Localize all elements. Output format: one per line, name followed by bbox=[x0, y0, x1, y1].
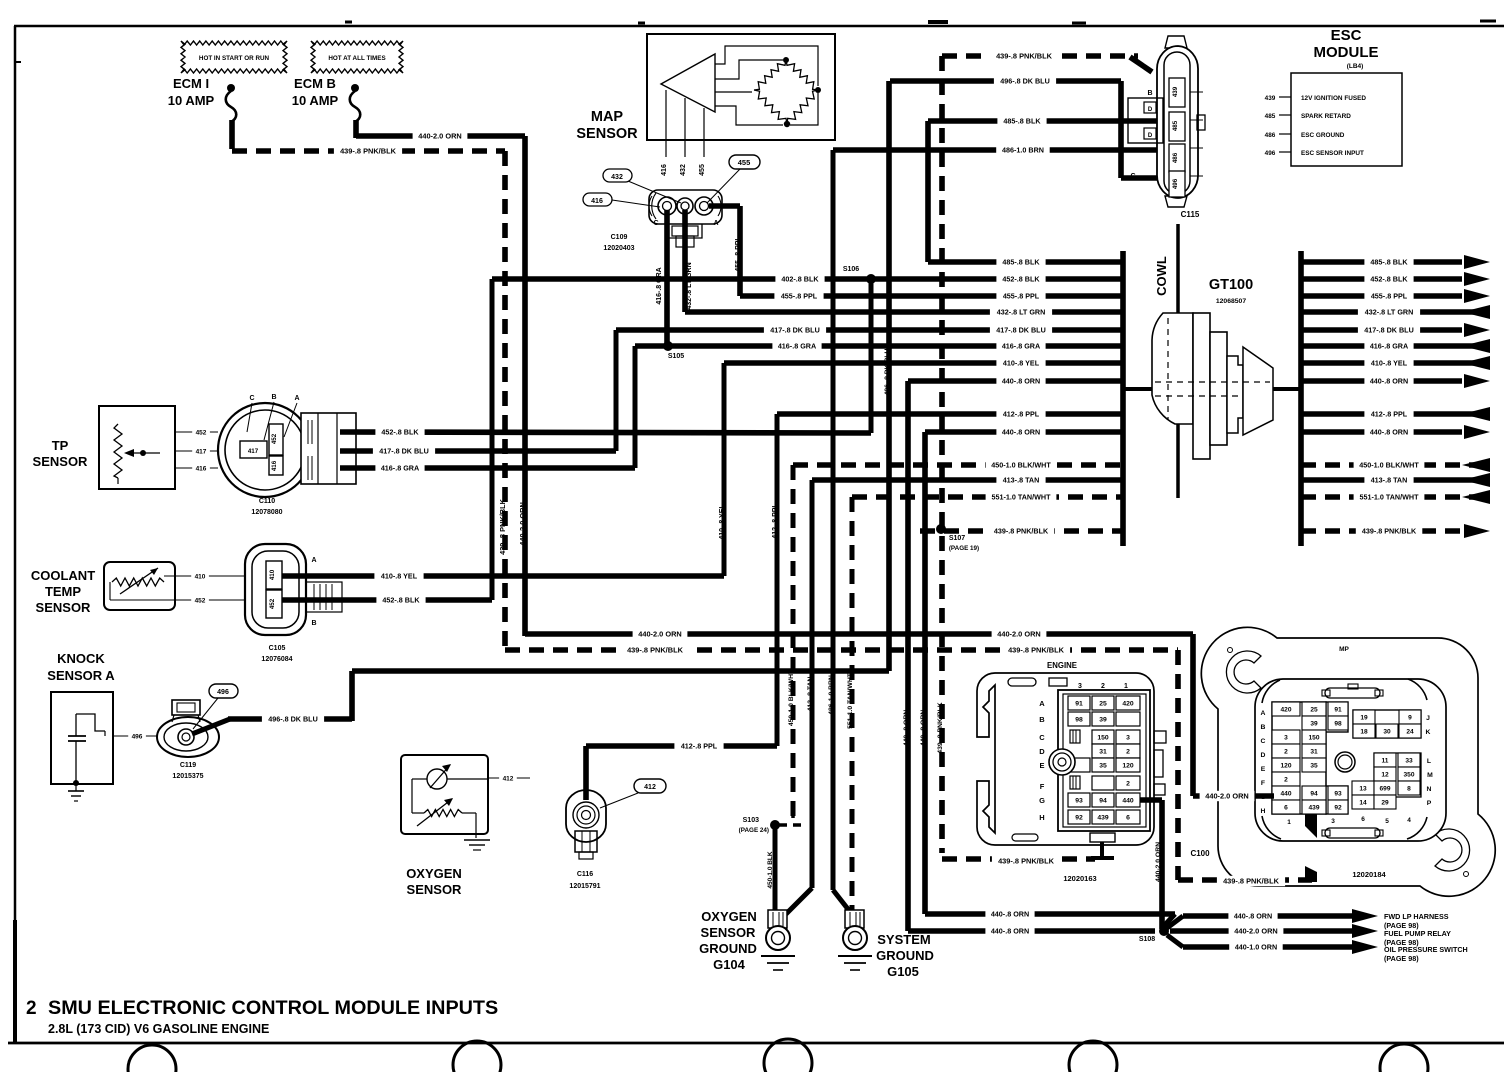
C109 id text bbox=[603, 234, 634, 252]
wire 432-.8 LT GRN from MAP bbox=[685, 210, 693, 312]
C110 pin cavities bbox=[240, 424, 283, 475]
ENGINE drain tab bbox=[1090, 833, 1115, 860]
svg-text:HOT AT ALL TIMES: HOT AT ALL TIMES bbox=[328, 55, 385, 62]
svg-text:455-.8 PPL: 455-.8 PPL bbox=[781, 292, 818, 301]
svg-text:350: 350 bbox=[1403, 772, 1414, 779]
svg-text:K: K bbox=[1426, 729, 1431, 736]
svg-text:93: 93 bbox=[1075, 798, 1083, 805]
svg-text:C: C bbox=[653, 220, 658, 227]
svg-text:OIL PRESSURE SWITCH: OIL PRESSURE SWITCH bbox=[1384, 945, 1468, 954]
svg-text:417: 417 bbox=[248, 448, 259, 455]
svg-text:450-1.0 BLK: 450-1.0 BLK bbox=[767, 851, 774, 889]
title text bbox=[26, 997, 498, 1036]
ENGINE right tabs bbox=[1154, 731, 1166, 795]
wire 413-.8 TAN right of GT100 with arrow bbox=[1301, 473, 1490, 487]
wire 452-.8 BLK row to cowl bus bbox=[492, 274, 1123, 284]
svg-text:485: 485 bbox=[1172, 120, 1179, 131]
wire 439-.8 PNK/BLK right of GT100 with arrow bbox=[1301, 524, 1490, 538]
svg-text:TEMP: TEMP bbox=[45, 584, 81, 599]
svg-text:A: A bbox=[311, 557, 316, 564]
svg-text:92: 92 bbox=[1334, 805, 1342, 812]
svg-text:485-.8 BLK: 485-.8 BLK bbox=[1003, 117, 1041, 126]
GT100 bulkhead connector bbox=[1152, 313, 1273, 459]
wire 440-.8 ORN to FWD LP HARNESS bbox=[1167, 909, 1378, 928]
svg-text:439-.8 PNK/BLK: 439-.8 PNK/BLK bbox=[937, 702, 944, 753]
svg-text:439-.8 PNK/BLK: 439-.8 PNK/BLK bbox=[1223, 877, 1280, 886]
bus bar left of GT100 bbox=[1120, 251, 1126, 546]
svg-text:1: 1 bbox=[1287, 819, 1291, 826]
svg-text:439-.8 PNK/BLK: 439-.8 PNK/BLK bbox=[996, 52, 1053, 61]
riser 439 PNK/BLK dashed x942 bbox=[937, 56, 944, 853]
MP row letters A-H bbox=[1260, 710, 1265, 815]
riser 416 GRA x635 bbox=[633, 346, 638, 468]
svg-text:439-.8 PNK/BLK: 439-.8 PNK/BLK bbox=[1008, 646, 1065, 655]
svg-text:432: 432 bbox=[611, 174, 623, 181]
wire 417-.8 DK BLU right of GT100 with arrow bbox=[1301, 323, 1490, 337]
svg-text:12: 12 bbox=[1381, 772, 1389, 779]
svg-text:B: B bbox=[1147, 90, 1152, 97]
svg-text:H: H bbox=[1261, 808, 1266, 815]
wire 416-.8 GRA from MAP bbox=[656, 210, 667, 346]
svg-text:12015375: 12015375 bbox=[172, 773, 203, 780]
svg-text:35: 35 bbox=[1310, 763, 1318, 770]
svg-text:452-.8 BLK: 452-.8 BLK bbox=[1370, 275, 1408, 284]
MP right top grid J K bbox=[1353, 710, 1431, 738]
wire 496-.8 DK BLU to C115 bbox=[890, 76, 1166, 178]
svg-text:D: D bbox=[1148, 107, 1153, 113]
wire 551-1.0 TAN/WHT row to cowl bus bbox=[852, 492, 1123, 502]
svg-text:440-2.0 ORN: 440-2.0 ORN bbox=[1234, 927, 1278, 936]
ESC module box bbox=[1291, 73, 1402, 166]
svg-text:413-.8 TAN: 413-.8 TAN bbox=[1371, 476, 1408, 485]
wire 486-1.0 BRN to C115 bbox=[833, 145, 1166, 155]
svg-text:F: F bbox=[1040, 782, 1045, 791]
svg-text:439-.8 PNK/BLK: 439-.8 PNK/BLK bbox=[1362, 527, 1417, 536]
ring terminal G104 bbox=[766, 910, 790, 950]
wire 551-1.0 TAN/WHT right of GT100 with arrow bbox=[1301, 490, 1490, 504]
svg-text:416: 416 bbox=[661, 164, 668, 176]
svg-text:2: 2 bbox=[1126, 749, 1130, 756]
svg-text:2: 2 bbox=[1101, 683, 1105, 690]
TP potentiometer element bbox=[114, 424, 160, 484]
wire 452-.8 BLK from TP bbox=[340, 427, 871, 437]
wire 440-2.0 ORN left riser bbox=[518, 136, 527, 636]
svg-text:450-1.0 BLK/WHT: 450-1.0 BLK/WHT bbox=[788, 669, 795, 726]
wire 416-.8 GRA mid label bbox=[772, 341, 821, 351]
svg-text:GROUND: GROUND bbox=[699, 941, 757, 956]
MP inner arcs bbox=[1262, 679, 1427, 839]
MP right bottom grid L M N P bbox=[1352, 753, 1433, 809]
svg-text:432-.8 LT GRN: 432-.8 LT GRN bbox=[686, 262, 693, 309]
MP corner clamp bottom-right bbox=[1435, 829, 1470, 877]
svg-text:C: C bbox=[249, 395, 254, 402]
wire 485-.8 BLK row to cowl bus bbox=[928, 257, 1123, 267]
svg-text:SMU ELECTRONIC CONTROL MODULE: SMU ELECTRONIC CONTROL MODULE INPUTS bbox=[48, 997, 498, 1019]
svg-text:H: H bbox=[1039, 813, 1044, 822]
svg-text:98: 98 bbox=[1334, 721, 1342, 728]
svg-text:417: 417 bbox=[196, 448, 207, 455]
C115 pin 485 bbox=[1169, 112, 1185, 141]
svg-text:452-.8 BLK: 452-.8 BLK bbox=[1002, 275, 1040, 284]
svg-text:OXYGEN: OXYGEN bbox=[406, 866, 462, 881]
riser 412 PPL x777 bbox=[772, 414, 779, 746]
svg-text:S106: S106 bbox=[843, 266, 859, 273]
FWD LP HARNESS caption bbox=[1384, 912, 1449, 930]
MAP sensor box bbox=[647, 34, 835, 140]
svg-text:35: 35 bbox=[1099, 763, 1107, 770]
wire 412-.8 PPL from C116 bbox=[586, 741, 777, 800]
wire 455-.8 PPL mid label bbox=[774, 291, 823, 301]
wire 439 dashed below engine connector bbox=[942, 856, 1095, 866]
svg-text:416-.8 GRA: 416-.8 GRA bbox=[1370, 342, 1408, 351]
wire 440-.8 ORN right of GT100 with arrow bbox=[1301, 425, 1490, 439]
svg-text:S105: S105 bbox=[668, 353, 684, 360]
svg-text:C: C bbox=[1039, 733, 1045, 742]
COOLANT TEMP SENSOR label bbox=[31, 568, 95, 615]
svg-text:S103: S103 bbox=[743, 817, 759, 824]
svg-text:417-.8 DK BLU: 417-.8 DK BLU bbox=[379, 447, 429, 456]
svg-text:93: 93 bbox=[1334, 791, 1342, 798]
svg-text:440-2.0 ORN: 440-2.0 ORN bbox=[1205, 792, 1249, 801]
wire 485-.8 BLK right of GT100 with arrow bbox=[1301, 255, 1490, 269]
svg-text:417-.8 DK BLU: 417-.8 DK BLU bbox=[1364, 326, 1414, 335]
svg-text:410-.8 YEL: 410-.8 YEL bbox=[381, 572, 418, 581]
OXYGEN SENSOR GROUND G104 label bbox=[699, 909, 757, 972]
svg-text:MP: MP bbox=[1339, 646, 1349, 653]
riser 417 DK BLU x616 bbox=[614, 330, 619, 451]
svg-text:6: 6 bbox=[1284, 805, 1288, 812]
svg-text:MAP: MAP bbox=[591, 109, 624, 125]
svg-text:94: 94 bbox=[1099, 798, 1107, 805]
svg-text:455: 455 bbox=[699, 164, 706, 176]
connector C116 bbox=[566, 790, 606, 859]
C115 terminal letters and lock bbox=[1128, 90, 1163, 180]
wire 496-.8 DK BLU from knock sensor bbox=[192, 671, 889, 734]
svg-text:G104: G104 bbox=[713, 957, 746, 972]
oxygen lead 412 bbox=[488, 773, 530, 783]
svg-text:1: 1 bbox=[1124, 683, 1128, 690]
MP top slot bbox=[1322, 684, 1383, 698]
svg-text:440-.8 ORN: 440-.8 ORN bbox=[903, 710, 910, 746]
svg-text:A: A bbox=[294, 395, 299, 402]
svg-text:A: A bbox=[1039, 699, 1045, 708]
ENGINE bolt circle bbox=[1049, 749, 1075, 775]
wire 416-.8 GRA right of GT100 with arrow bbox=[1301, 339, 1490, 353]
C115 pin 496 bbox=[1169, 171, 1185, 197]
TP leads 452 417 416 bbox=[175, 427, 218, 473]
wire 450-1.0 BLK to G104 bbox=[767, 825, 775, 912]
splice S108 bbox=[1139, 926, 1169, 943]
riser 485 BLK x928 upper bbox=[925, 121, 931, 262]
wire 410-.8 YEL right of GT100 with arrow bbox=[1301, 356, 1490, 370]
wire 452-.8 BLK from coolant bbox=[282, 595, 492, 605]
svg-text:440-.8 ORN: 440-.8 ORN bbox=[1370, 428, 1408, 437]
svg-text:440-2.0 ORN: 440-2.0 ORN bbox=[518, 502, 527, 546]
svg-text:440-2.0 ORN: 440-2.0 ORN bbox=[1155, 842, 1162, 882]
svg-text:416-.8 GRA: 416-.8 GRA bbox=[656, 267, 663, 304]
C105 id text bbox=[261, 645, 292, 663]
C110 pin letters C B A bbox=[247, 394, 300, 440]
wire 455-.8 PPL row to cowl bus bbox=[740, 291, 1123, 301]
svg-text:455-.8 PPL: 455-.8 PPL bbox=[735, 236, 742, 272]
HOT IN START OR RUN box bbox=[181, 41, 287, 73]
svg-text:440: 440 bbox=[1280, 791, 1291, 798]
svg-text:450-1.0 BLK/WHT: 450-1.0 BLK/WHT bbox=[991, 461, 1051, 470]
riser 440-.8 ORN x908 bbox=[903, 381, 910, 931]
svg-text:ECM I: ECM I bbox=[173, 76, 209, 91]
svg-text:10 AMP: 10 AMP bbox=[168, 93, 215, 108]
svg-text:150: 150 bbox=[1308, 735, 1319, 742]
svg-text:ENGINE: ENGINE bbox=[1047, 661, 1077, 670]
border frame bottom bbox=[8, 1042, 1504, 1045]
svg-text:C119: C119 bbox=[180, 762, 196, 769]
svg-text:440-1.0 ORN: 440-1.0 ORN bbox=[1235, 943, 1277, 952]
svg-text:D: D bbox=[1261, 752, 1266, 759]
riser 486-1.0 BRN x833 bbox=[828, 150, 835, 890]
svg-text:39: 39 bbox=[1310, 721, 1318, 728]
svg-text:G105: G105 bbox=[887, 964, 919, 979]
wire 452-.8 BLK right of GT100 with arrow bbox=[1301, 272, 1490, 286]
riser 551-1.0 TAN/WHT dashed x852 bbox=[847, 497, 854, 912]
wire 402-.8 BLK label on row bbox=[775, 274, 824, 284]
svg-text:C110: C110 bbox=[259, 498, 275, 505]
svg-text:496: 496 bbox=[1265, 150, 1276, 157]
MP inner face bbox=[1255, 679, 1446, 841]
C115 pin 486 bbox=[1169, 144, 1185, 172]
svg-text:25: 25 bbox=[1099, 701, 1107, 708]
wire 440-2.0 ORN to FUEL PUMP RELAY bbox=[1170, 924, 1378, 938]
svg-text:420: 420 bbox=[1122, 701, 1134, 708]
MP connector shell bbox=[1201, 627, 1495, 896]
ground symbol G105 bbox=[838, 956, 872, 970]
oxygen sensor box bbox=[401, 755, 488, 834]
svg-text:ESC GROUND: ESC GROUND bbox=[1301, 132, 1345, 139]
fuse ECM I 10 AMP bbox=[168, 76, 236, 122]
C109 pin C circle bbox=[658, 197, 676, 215]
svg-text:412-.8 PPL: 412-.8 PPL bbox=[772, 503, 779, 539]
circuit ovals 416 432 455 with leaders bbox=[583, 155, 760, 207]
MAP sensor internal leads 416 432 455 bbox=[661, 90, 706, 176]
svg-text:412-.8 PPL: 412-.8 PPL bbox=[1371, 410, 1408, 419]
COWL divider line bbox=[1154, 224, 1178, 498]
svg-text:416-.8 GRA: 416-.8 GRA bbox=[1002, 342, 1040, 351]
svg-text:SENSOR: SENSOR bbox=[701, 925, 757, 940]
svg-text:9: 9 bbox=[1408, 715, 1412, 722]
MP bottom cavity numbers bbox=[1287, 816, 1411, 826]
svg-text:COWL: COWL bbox=[1154, 256, 1169, 296]
svg-text:440-.8 ORN: 440-.8 ORN bbox=[1002, 377, 1040, 386]
svg-text:416: 416 bbox=[196, 465, 207, 472]
C116 id text bbox=[569, 871, 600, 890]
wire 485-.8 BLK to C115 bbox=[928, 116, 1166, 126]
wire 440-.8 ORN lower row into S108 bbox=[908, 926, 1155, 936]
C105 pin 410 bbox=[266, 561, 282, 589]
svg-text:12076084: 12076084 bbox=[261, 656, 292, 663]
svg-text:D: D bbox=[1039, 747, 1045, 756]
svg-text:FWD LP HARNESS: FWD LP HARNESS bbox=[1384, 912, 1449, 921]
svg-text:G: G bbox=[1039, 796, 1045, 805]
svg-text:412: 412 bbox=[644, 784, 656, 791]
svg-text:496-.8 DK BLU: 496-.8 DK BLU bbox=[1000, 77, 1050, 86]
ENGINE row letters A-H bbox=[1039, 699, 1045, 822]
svg-text:A: A bbox=[1261, 710, 1266, 717]
svg-text:J: J bbox=[1426, 715, 1430, 722]
riser 402/452 BLK x492 bbox=[490, 279, 495, 600]
svg-text:10 AMP: 10 AMP bbox=[292, 93, 339, 108]
svg-text:455: 455 bbox=[738, 158, 751, 167]
wire 412-.8 PPL right of GT100 with arrow bbox=[1301, 407, 1490, 421]
svg-text:417-.8 DK BLU: 417-.8 DK BLU bbox=[996, 326, 1046, 335]
ESC module pin list bbox=[1301, 95, 1366, 157]
ENGINE keyway hatches bbox=[1070, 730, 1080, 789]
svg-text:12020403: 12020403 bbox=[603, 245, 634, 252]
svg-text:699: 699 bbox=[1379, 786, 1390, 793]
svg-text:P: P bbox=[1427, 800, 1432, 807]
svg-text:ESC SENSOR INPUT: ESC SENSOR INPUT bbox=[1301, 150, 1364, 157]
svg-text:439: 439 bbox=[1172, 86, 1179, 97]
svg-text:439: 439 bbox=[1097, 815, 1109, 822]
wire 432-.8 LT GRN row to cowl bus bbox=[685, 307, 1123, 317]
svg-text:440-.8 ORN: 440-.8 ORN bbox=[1234, 912, 1272, 921]
splice S103 bbox=[739, 810, 805, 834]
svg-text:452: 452 bbox=[269, 598, 276, 609]
svg-text:B: B bbox=[311, 620, 316, 627]
svg-text:2.8L (173 CID) V6 GASOLINE ENG: 2.8L (173 CID) V6 GASOLINE ENGINE bbox=[48, 1022, 269, 1036]
svg-text:439-.8 PNK/BLK: 439-.8 PNK/BLK bbox=[340, 147, 397, 156]
OIL PRESSURE SWITCH caption bbox=[1384, 945, 1468, 963]
FUEL PUMP RELAY caption bbox=[1384, 929, 1451, 947]
wire 439 dashed right side of engine connector bbox=[1175, 650, 1181, 880]
fuse ECM B 10 AMP bbox=[292, 76, 360, 122]
svg-text:440: 440 bbox=[1122, 798, 1134, 805]
svg-text:440-.8 ORN: 440-.8 ORN bbox=[1370, 377, 1408, 386]
svg-text:L: L bbox=[1427, 758, 1431, 765]
border frame left bbox=[14, 26, 17, 1043]
wire 439-.8 PNK/BLK row to cowl bus bbox=[920, 526, 1123, 536]
HOT AT ALL TIMES box bbox=[311, 41, 403, 73]
svg-text:455-.8 PPL: 455-.8 PPL bbox=[1371, 292, 1408, 301]
svg-text:3: 3 bbox=[1126, 735, 1130, 742]
MP left pin grid bbox=[1272, 702, 1348, 814]
wire from ECM B fuse (vertical) bbox=[353, 120, 359, 138]
TP SENSOR label bbox=[33, 438, 89, 469]
svg-text:496: 496 bbox=[1172, 178, 1179, 189]
svg-text:440-2.0 ORN: 440-2.0 ORN bbox=[638, 630, 682, 639]
wire 455-.8 PPL right of GT100 with arrow bbox=[1301, 289, 1490, 303]
svg-text:C: C bbox=[1261, 738, 1266, 745]
svg-text:25: 25 bbox=[1310, 707, 1318, 714]
MP 439 dash arrows bbox=[1305, 814, 1317, 882]
svg-text:496-.8 DK BLU: 496-.8 DK BLU bbox=[884, 348, 891, 395]
wire 417-.8 DK BLU mid label bbox=[764, 325, 826, 335]
GT100 label bbox=[1209, 277, 1253, 305]
svg-text:6: 6 bbox=[1126, 815, 1130, 822]
coolant leads 410 452 bbox=[164, 571, 245, 605]
C109 pin B circle bbox=[677, 198, 693, 214]
wire 413 TAN diagonal to G104 bbox=[786, 888, 812, 914]
svg-text:E: E bbox=[1261, 766, 1266, 773]
svg-text:33: 33 bbox=[1405, 758, 1413, 765]
wire 439-.8 PNK/BLK to C115 bbox=[942, 51, 1152, 72]
svg-text:94: 94 bbox=[1310, 791, 1318, 798]
wire 416-.8 GRA from TP bbox=[340, 463, 635, 473]
C109 pin letters bbox=[653, 220, 718, 227]
svg-text:412-.8 PPL: 412-.8 PPL bbox=[1003, 410, 1040, 419]
ENGINE connector shell bbox=[977, 673, 1154, 845]
svg-text:416: 416 bbox=[591, 198, 603, 205]
bus bar right of GT100 bbox=[1298, 251, 1304, 546]
svg-text:C100: C100 bbox=[1190, 849, 1210, 858]
oval 412 with leader bbox=[600, 779, 666, 808]
svg-text:91: 91 bbox=[1075, 701, 1083, 708]
svg-text:413-.8 TAN: 413-.8 TAN bbox=[807, 677, 814, 712]
svg-text:SENSOR: SENSOR bbox=[33, 454, 89, 469]
svg-text:3: 3 bbox=[1078, 683, 1082, 690]
splice S105 on 416 row bbox=[663, 341, 684, 360]
svg-text:91: 91 bbox=[1334, 707, 1342, 714]
svg-text:432: 432 bbox=[680, 164, 687, 176]
svg-text:2: 2 bbox=[1284, 777, 1288, 784]
svg-text:551-1.0 TAN/WHT: 551-1.0 TAN/WHT bbox=[847, 672, 854, 729]
svg-text:24: 24 bbox=[1406, 729, 1414, 736]
wire 450-1.0 BLK/WHT row to cowl bus bbox=[793, 460, 1123, 470]
svg-text:452: 452 bbox=[271, 433, 278, 444]
svg-text:GT100: GT100 bbox=[1209, 277, 1253, 293]
svg-text:98: 98 bbox=[1075, 717, 1083, 724]
thermistor symbol bbox=[110, 568, 165, 600]
svg-text:452: 452 bbox=[195, 597, 206, 604]
svg-text:19: 19 bbox=[1360, 715, 1368, 722]
svg-text:M: M bbox=[1427, 772, 1433, 779]
ground symbol G104 bbox=[761, 956, 795, 970]
wire 417-.8 DK BLU row to cowl bus bbox=[616, 325, 1123, 335]
svg-text:COOLANT: COOLANT bbox=[31, 568, 95, 583]
svg-text:416-.8 GRA: 416-.8 GRA bbox=[778, 342, 816, 351]
svg-text:3: 3 bbox=[1331, 818, 1335, 825]
MP bottom slot bbox=[1322, 828, 1383, 838]
riser 410 YEL x724 bbox=[719, 363, 726, 576]
svg-text:SENSOR: SENSOR bbox=[36, 600, 92, 615]
svg-text:452-.8 BLK: 452-.8 BLK bbox=[382, 596, 420, 605]
ENGINE inner block bbox=[1058, 690, 1150, 831]
svg-text:439-.8 PNK/BLK: 439-.8 PNK/BLK bbox=[994, 527, 1049, 536]
svg-text:12020184: 12020184 bbox=[1352, 870, 1386, 879]
svg-text:410: 410 bbox=[269, 569, 276, 580]
svg-text:13: 13 bbox=[1359, 786, 1367, 793]
oval 496 with leader bbox=[193, 684, 238, 729]
svg-text:485-.8 BLK: 485-.8 BLK bbox=[1370, 258, 1408, 267]
ESC pin numbers 439 485 486 496 bbox=[1265, 95, 1291, 157]
svg-text:486-1.0 BRN: 486-1.0 BRN bbox=[1002, 146, 1044, 155]
wire 440-.8 ORN right of GT100 with arrow bbox=[1301, 374, 1490, 388]
svg-text:(PAGE 24): (PAGE 24) bbox=[739, 827, 769, 834]
svg-text:120: 120 bbox=[1122, 763, 1134, 770]
svg-text:92: 92 bbox=[1075, 815, 1083, 822]
knock lead 496 bbox=[113, 731, 158, 741]
svg-text:(PAGE 19): (PAGE 19) bbox=[949, 545, 979, 552]
svg-text:C109: C109 bbox=[611, 234, 628, 241]
wire 410-.8 YEL from coolant bbox=[282, 571, 724, 581]
svg-text:432-.8 LT GRN: 432-.8 LT GRN bbox=[1365, 308, 1414, 317]
riser 496-.8 DK BLU x889 bbox=[884, 81, 891, 671]
svg-text:452-.8 BLK: 452-.8 BLK bbox=[381, 428, 419, 437]
svg-text:HOT IN START OR RUN: HOT IN START OR RUN bbox=[199, 55, 270, 62]
svg-text:E: E bbox=[1039, 761, 1044, 770]
wire 440-.8 ORN row into S108 bbox=[925, 909, 1175, 928]
svg-text:12V IGNITION FUSED: 12V IGNITION FUSED bbox=[1301, 95, 1366, 102]
svg-text:12015791: 12015791 bbox=[569, 883, 600, 890]
svg-text:C116: C116 bbox=[577, 871, 593, 878]
